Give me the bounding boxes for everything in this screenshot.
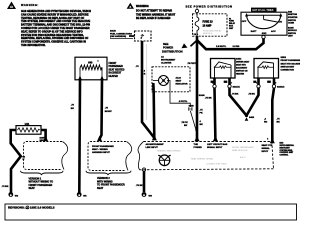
svg-text:.5 PK/YL: .5 PK/YL <box>179 101 189 103</box>
svg-text:S31/2: S31/2 <box>110 31 116 33</box>
instrument cluster box <box>152 67 190 92</box>
terminal label S24/2 <box>40 137 46 142</box>
svg-text:CONNECTOR VIEW: CONNECTOR VIEW <box>206 164 227 166</box>
lamp right wire to main feed <box>167 81 190 108</box>
svg-text:THIS INFORMATION.: THIS INFORMATION. <box>21 44 46 47</box>
terminal ring fuse top <box>196 8 198 9</box>
svg-text:S2/2: S2/2 <box>262 33 267 35</box>
junction label at jog <box>23 157 26 161</box>
connector box S31/2 <box>129 31 151 41</box>
svg-text:S24A/2: S24A/2 <box>277 85 285 88</box>
svg-text:INPUT: INPUT <box>262 151 269 153</box>
svg-text:BK: BK <box>200 124 204 126</box>
svg-text:BK/GY: BK/GY <box>105 111 112 113</box>
svg-text:HEATER: HEATER <box>109 75 119 78</box>
terminal on middle seat box <box>97 136 102 141</box>
wire label .75 BK w4 <box>277 119 281 124</box>
svg-text:SWITCH: SWITCH <box>288 20 296 22</box>
svg-text:SEAT HEATED: SEAT HEATED <box>109 68 125 71</box>
svg-text:BACKREST: BACKREST <box>236 66 248 69</box>
svg-text:1: 1 <box>98 60 99 62</box>
svg-text:IGNITION: IGNITION <box>288 14 297 16</box>
svg-text:.75 BK: .75 BK <box>232 94 239 96</box>
svg-text:SIGNAL INPUT: SIGNAL INPUT <box>207 146 223 149</box>
svg-text:LINK INPUT: LINK INPUT <box>146 147 159 149</box>
svg-text:OFF: OFF <box>242 21 247 23</box>
heater element H40 box <box>75 57 107 80</box>
H40 right leg wire <box>100 80 103 139</box>
main feed wire down <box>196 41 199 139</box>
ignition switch labels right <box>288 11 298 37</box>
svg-text:10 AMP: 10 AMP <box>203 25 212 28</box>
fuse box (dashed) <box>193 13 228 36</box>
ignition switch terminal <box>262 35 265 38</box>
H40 label right <box>109 63 125 78</box>
left seat dashed box (version 1) <box>24 142 68 170</box>
svg-text:SEAT WIRING DETAIL: SEAT WIRING DETAIL <box>191 158 214 161</box>
svg-text:SEAT HTD BACKREST: SEAT HTD BACKREST <box>281 62 301 65</box>
warning paragraph 2 <box>136 10 176 21</box>
pin numbers <box>212 83 276 85</box>
svg-text:1: 1 <box>256 83 257 85</box>
svg-text:2.5 RD/YL: 2.5 RD/YL <box>216 46 227 48</box>
svg-text:FUSE 13: FUSE 13 <box>203 21 214 24</box>
svg-text:BK: BK <box>184 125 188 127</box>
svg-text:(ON HARNESS): (ON HARNESS) <box>110 35 126 38</box>
svg-text:S463: S463 <box>249 116 255 119</box>
ring terminals row <box>213 85 276 88</box>
connector S24/4 on main wire <box>188 94 205 131</box>
terminal on left seat box <box>43 136 48 141</box>
svg-text:HEATER: HEATER <box>236 72 245 75</box>
svg-text:BATT: BATT <box>251 30 257 33</box>
svg-text:3: 3 <box>231 83 232 85</box>
svg-text:FRONT PASSENGER: FRONT PASSENGER <box>92 145 114 148</box>
svg-text:CONNECTOR: CONNECTOR <box>281 70 295 72</box>
svg-text:.75 BK: .75 BK <box>136 185 143 187</box>
svg-text:MODULE: MODULE <box>203 33 213 35</box>
H41 right wire <box>41 130 46 139</box>
middle seat dashed box (version 2) <box>88 142 132 171</box>
terminal on seat box (w1) <box>213 136 218 141</box>
svg-text:SEE: SEE <box>163 42 169 46</box>
version 1 text <box>29 177 54 190</box>
SRS label right <box>280 143 295 157</box>
H41 left wire with jog to ground <box>11 130 21 193</box>
svg-text:CONTROL: CONTROL <box>280 155 290 157</box>
wire label .75 PK/BK (thin wire) <box>181 122 188 127</box>
svg-text:CONN: CONN <box>288 23 294 25</box>
svg-text:FRONT: FRONT <box>109 63 118 65</box>
svg-text:DRIVER SEAT: DRIVER SEAT <box>236 60 250 63</box>
svg-text:SEAT: SEAT <box>176 80 182 83</box>
svg-text:3: 3 <box>275 83 276 85</box>
ignition switch box <box>241 12 287 35</box>
svg-text:SEAT HTD: SEAT HTD <box>236 63 246 66</box>
revision footer box <box>5 204 297 220</box>
svg-text:HARNESS INPUT: HARNESS INPUT <box>92 151 111 154</box>
heater element H41 box <box>16 123 41 134</box>
svg-text:SWITCH UNIT: SWITCH UNIT <box>281 66 295 68</box>
ground W2 (center-left) <box>77 192 87 197</box>
svg-text:.75 BK: .75 BK <box>248 94 255 96</box>
junction under fuse <box>182 36 264 49</box>
svg-text:ON: ON <box>279 22 283 24</box>
warning paragraph 1 <box>21 10 91 47</box>
svg-text:SEAT - WIRING: SEAT - WIRING <box>92 148 108 151</box>
seat box terminal labels <box>146 143 165 149</box>
svg-text:PK: PK <box>200 113 203 115</box>
svg-text:ACC: ACC <box>271 30 276 33</box>
connector label S31/2 <box>110 31 133 39</box>
H40 left leg wire to ground <box>78 80 81 193</box>
svg-text:A1e8: A1e8 <box>176 77 182 80</box>
wire box2 pin1 to junction <box>247 78 259 116</box>
wire box2 pin3 down <box>272 78 274 141</box>
svg-text:STARTER: STARTER <box>288 16 298 19</box>
svg-text:REVISIONS: (1) 190E 2.6 MODE: REVISIONS: (1) 190E 2.6 MODELS <box>8 206 55 210</box>
wire label .75 BK (left leg) <box>71 105 75 110</box>
svg-text:HOT AT ALL TIMES: HOT AT ALL TIMES <box>253 9 274 12</box>
svg-text:THE: THE <box>194 144 199 146</box>
label right of fuse box <box>229 18 236 30</box>
svg-text:S24/4: S24/4 <box>199 94 205 97</box>
svg-text:6: 6 <box>267 138 268 140</box>
svg-text:THE WIRING HARNESS. IT MUST: THE WIRING HARNESS. IT MUST <box>136 13 176 16</box>
svg-text:DISTRIBUTION: DISTRIBUTION <box>162 50 183 54</box>
junction S463 <box>245 114 255 121</box>
svg-text:FUSE AND RELAY: FUSE AND RELAY <box>203 30 222 33</box>
svg-text:.75 BK: .75 BK <box>205 98 212 100</box>
svg-text:BASE: BASE <box>288 26 294 29</box>
svg-text:SIGNAL: SIGNAL <box>262 147 271 150</box>
wire to ground W9 <box>143 171 146 192</box>
svg-text:S24/9: S24/9 <box>189 105 194 108</box>
svg-text:LEFT CIRCUIT BAR: LEFT CIRCUIT BAR <box>207 143 228 146</box>
svg-text:SWITCH ON: SWITCH ON <box>236 70 248 72</box>
svg-text:A B C: A B C <box>240 156 246 159</box>
wire box1 pin1 down <box>213 78 216 140</box>
middle box text <box>92 145 114 154</box>
svg-text:HEATED SEAT WIRING: HEATED SEAT WIRING <box>157 149 181 152</box>
terminal lamp wire on seat box <box>152 135 157 140</box>
svg-text:INDICATOR: INDICATOR <box>176 83 188 86</box>
warning triangle W2 <box>127 3 134 9</box>
svg-text:FUEL CONNECTORS: FUEL CONNECTORS <box>110 33 132 35</box>
lamp label <box>176 77 188 86</box>
emblem symbol <box>158 155 170 166</box>
ground W2 (left) <box>8 192 18 197</box>
svg-text:WARNING:: WARNING: <box>21 3 39 7</box>
wire box1 pin3 to junction <box>230 78 247 116</box>
svg-text:DO NOT ATTEMPT TO REPAIR: DO NOT ATTEMPT TO REPAIR <box>136 10 172 13</box>
svg-text:SEAT CTR: SEAT CTR <box>262 144 273 147</box>
svg-text:FRONT PASSENGER: FRONT PASSENGER <box>232 146 254 149</box>
brace version 1 <box>21 171 64 175</box>
svg-text:S24A/1: S24A/1 <box>233 85 241 88</box>
wire label stacked (main wire) <box>200 110 204 127</box>
lamp left wire down <box>153 83 154 138</box>
svg-text:S25/2: S25/2 <box>236 58 242 60</box>
svg-text:FRONT PASSENGER: FRONT PASSENGER <box>281 59 301 62</box>
svg-text:BK: BK <box>71 108 75 110</box>
instrument cluster label <box>161 56 176 65</box>
wire label 4 RD w4 <box>264 118 268 124</box>
heated seat switch box S25/3 <box>253 59 278 83</box>
svg-text:13 A: 13 A <box>194 33 199 36</box>
right seat dashed box <box>138 142 273 170</box>
svg-text:RD: RD <box>264 122 268 124</box>
warning triangle W1 <box>7 2 16 10</box>
S25/2 label <box>236 58 250 75</box>
svg-text:2.5 RD: 2.5 RD <box>233 46 240 48</box>
HOT AT ALL TIMES label <box>251 8 277 12</box>
heated seat switch box S25/2 <box>211 59 236 83</box>
svg-text:SEAT: SEAT <box>97 187 104 190</box>
svg-text:S25/3: S25/3 <box>281 57 287 59</box>
svg-text:POWER: POWER <box>194 147 203 149</box>
terminal main feed on seat box <box>195 136 200 141</box>
svg-text:WARNING:: WARNING: <box>136 5 149 8</box>
brace version 2 <box>86 171 131 175</box>
svg-text:CLUSTER: CLUSTER <box>161 62 172 64</box>
wire label (right leg) <box>105 108 112 113</box>
indicator lamp A1e8 <box>153 76 169 86</box>
wire from S31/2 box down <box>142 41 154 138</box>
faint scan line <box>145 44 147 120</box>
svg-text:MODULE: MODULE <box>288 30 297 32</box>
terminal corner (w4) <box>270 138 275 143</box>
ground W9 (center) <box>142 192 153 197</box>
svg-text:BE REPLACED IF DAMAGED: BE REPLACED IF DAMAGED <box>136 17 171 20</box>
faint interior text <box>157 146 254 165</box>
label SEE POWER DISTRIBUTION (arrow) <box>162 42 183 53</box>
svg-text:SEAT MODULE: SEAT MODULE <box>232 149 248 152</box>
svg-text:SEE POWER DISTRIBUTION: SEE POWER DISTRIBUTION <box>186 4 233 8</box>
svg-text:.75 PK: .75 PK <box>181 122 188 124</box>
ring terminal on seat box bottom <box>142 168 145 171</box>
svg-text:SEAT: SEAT <box>29 187 36 190</box>
svg-text:UNIT: UNIT <box>288 35 293 37</box>
svg-text:INSTRUMENT: INSTRUMENT <box>161 60 176 62</box>
svg-text:PASSENGER: PASSENGER <box>109 65 124 68</box>
svg-text:.75 PK/YL: .75 PK/YL <box>187 63 198 65</box>
S25/3 label <box>281 57 304 71</box>
svg-text:AN INSTRUMENT: AN INSTRUMENT <box>146 143 165 146</box>
version 2 text <box>97 177 125 190</box>
svg-text:BACKREST: BACKREST <box>109 72 122 75</box>
svg-text:.75 BR: .75 BR <box>2 186 9 188</box>
svg-text:BK: BK <box>277 122 281 124</box>
svg-text:1: 1 <box>212 83 213 85</box>
